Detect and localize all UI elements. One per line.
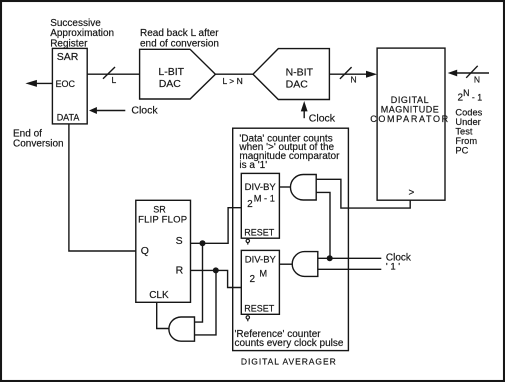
reset pin U6 [246, 316, 249, 322]
wire DATA to Q [69, 124, 136, 251]
junction clock [327, 255, 333, 261]
wire G2 out to U6 [279, 263, 292, 265]
wire N bus [329, 73, 367, 75]
wire S to counter U5 [191, 208, 242, 244]
svg-text:M: M [259, 268, 267, 278]
wire R to counter U6 [191, 270, 242, 287]
arrow clock into SAR [89, 107, 97, 114]
svg-text:DAC: DAC [159, 78, 182, 90]
svg-text:counts every clock pulse: counts every clock pulse [235, 338, 344, 349]
and-gate G2 [292, 252, 318, 277]
svg-text:Codes: Codes [455, 108, 482, 118]
label N-BIT DAC [286, 66, 314, 90]
svg-text:2: 2 [250, 274, 256, 285]
reset pin U5 [246, 239, 249, 244]
svg-text:N: N [474, 74, 480, 84]
counter U6 DIV-BY 2^M [241, 250, 279, 314]
wire clock to N-DAC [303, 111, 305, 118]
label Codes Under Test From PC [455, 108, 482, 156]
wire R junction to G3 input [195, 270, 217, 335]
wire S junction to G3 input [195, 243, 203, 322]
register SAR [52, 48, 87, 124]
svg-text:Conversion: Conversion [13, 138, 64, 149]
wire L bus [87, 73, 139, 75]
svg-text:Register: Register [50, 39, 88, 50]
wire G1 out to U5 [279, 186, 290, 188]
wire clock line [318, 257, 382, 259]
svg-text:>: > [409, 188, 415, 199]
svg-text:PC: PC [455, 146, 468, 156]
arrow codes into comparator [448, 70, 458, 77]
DAC U1 L-BIT [140, 49, 216, 99]
svg-text:' 1 ': ' 1 ' [386, 262, 400, 273]
flip-flop U4 SR [136, 200, 191, 302]
svg-text:N: N [351, 75, 357, 85]
svg-text:Clock: Clock [309, 113, 336, 125]
wire codes input [457, 72, 490, 74]
svg-text:SAR: SAR [57, 51, 79, 63]
svg-text:L-BIT: L-BIT [158, 66, 184, 78]
svg-text:2: 2 [247, 199, 253, 210]
counter U5 DIV-BY 2^M-1 [241, 173, 279, 238]
wire DAC to DAC [215, 73, 253, 75]
svg-text:DIGITAL AVERAGER: DIGITAL AVERAGER [241, 357, 337, 367]
svg-text:R: R [176, 264, 184, 276]
wire clock to SAR [97, 110, 126, 112]
svg-text:N-BIT: N-BIT [286, 66, 314, 78]
label Successive Approximation Register [50, 18, 114, 50]
wire G3 out to CLK [157, 302, 169, 328]
note data counter [238, 133, 340, 171]
svg-text:MAGNITUDE: MAGNITUDE [381, 105, 440, 115]
junction S [200, 240, 206, 246]
svg-text:Approximation: Approximation [50, 28, 114, 39]
svg-text:DAC: DAC [286, 78, 309, 90]
comparator U3 [377, 48, 445, 200]
svg-text:Under: Under [455, 117, 480, 127]
svg-text:COMPARATOR: COMPARATOR [370, 114, 450, 124]
svg-text:L: L [112, 75, 117, 85]
label L-BIT DAC [158, 66, 184, 90]
svg-text:Q: Q [141, 245, 149, 257]
slash N [340, 67, 352, 79]
wire logic-1 line [318, 268, 382, 270]
svg-text:EOC: EOC [56, 79, 76, 89]
svg-text:M - 1: M - 1 [254, 193, 275, 203]
svg-text:Test: Test [455, 127, 472, 137]
arrow clock into N-DAC [301, 101, 308, 111]
and-gate G3 [169, 317, 195, 341]
block DIGITAL AVERAGER [233, 128, 349, 350]
wire EOC out [36, 82, 52, 84]
svg-text:end of conversion: end of conversion [140, 38, 219, 49]
svg-text:FLIP FLOP: FLIP FLOP [138, 215, 187, 226]
svg-text:L > N: L > N [223, 76, 243, 86]
svg-text:Clock: Clock [131, 104, 158, 116]
svg-text:From: From [455, 136, 477, 146]
svg-text:RESET: RESET [244, 304, 275, 314]
svg-text:S: S [176, 235, 183, 247]
wire comparator out to G1 [316, 179, 410, 208]
slash N codes [466, 66, 478, 78]
junction R [213, 267, 219, 273]
DAC U2 N-BIT [253, 49, 329, 100]
svg-text:Read back L after: Read back L after [140, 28, 219, 39]
svg-text:DIV-BY: DIV-BY [245, 182, 277, 193]
svg-text:DIGITAL: DIGITAL [391, 95, 430, 105]
slash L [103, 67, 115, 79]
svg-text:is a '1': is a '1' [239, 160, 267, 171]
arrow N bus into comparator [366, 71, 377, 78]
wire G1 in from clock junction [316, 192, 330, 258]
svg-text:CLK: CLK [149, 290, 169, 301]
svg-text:DIV-BY: DIV-BY [245, 255, 277, 266]
label Read back L after end of conversion [140, 28, 219, 50]
label End of Conversion [13, 128, 64, 149]
and-gate G1 [290, 175, 316, 201]
note reference counter [235, 329, 344, 349]
label DIGITAL MAGNITUDE COMPARATOR [370, 95, 450, 124]
svg-text:DATA: DATA [57, 113, 80, 123]
svg-text:Successive: Successive [50, 18, 101, 29]
arrow EOC left [25, 80, 37, 87]
svg-text:RESET: RESET [244, 228, 275, 238]
svg-text:SR: SR [153, 205, 166, 215]
